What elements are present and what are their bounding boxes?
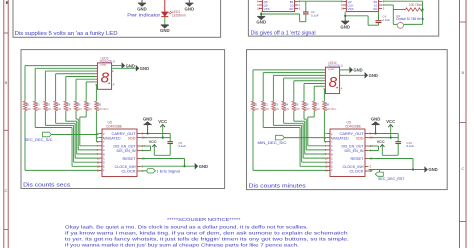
svg-text:RESET: RESET xyxy=(123,157,137,161)
svg-text:VCC: VCC xyxy=(386,119,395,124)
svg-text:220: 220 xyxy=(77,107,82,111)
svg-text:B: B xyxy=(461,70,464,75)
svg-text:220: 220 xyxy=(275,107,280,111)
svg-text:VQRN: VQRN xyxy=(100,65,107,67)
svg-text:0.1uF: 0.1uF xyxy=(311,14,319,18)
svg-text:VCC: VCC xyxy=(158,119,167,124)
svg-text:DIS_EN_IN: DIS_EN_IN xyxy=(117,149,136,153)
svg-text:R2: R2 xyxy=(36,103,40,107)
svg-text:0.1uF: 0.1uF xyxy=(406,144,414,148)
svg-text:1 Ertz Signal: 1 Ertz Signal xyxy=(156,170,180,174)
svg-text:R7: R7 xyxy=(315,103,319,107)
svg-text:220: 220 xyxy=(87,107,92,111)
svg-text:Dis supplies 5 volts an 'as a: Dis supplies 5 volts an 'as a funky LED xyxy=(15,31,118,37)
svg-text:If you wanna marke it den jus': If you wanna marke it den jus' buy sum a… xyxy=(65,243,299,248)
svg-text:R5: R5 xyxy=(295,103,299,107)
svg-text:R4: R4 xyxy=(285,103,289,107)
svg-text:220: 220 xyxy=(36,107,41,111)
svg-text:A: A xyxy=(331,148,333,152)
svg-text:220: 220 xyxy=(57,107,62,111)
svg-text:10: 10 xyxy=(341,7,345,11)
svg-text:D: D xyxy=(331,161,333,165)
svg-text:GND: GND xyxy=(143,116,153,121)
svg-text:A: A xyxy=(341,87,343,91)
svg-text:GND: GND xyxy=(185,6,195,11)
svg-text:GND: GND xyxy=(140,66,149,71)
svg-text:B: B xyxy=(5,80,8,85)
svg-text:C: C xyxy=(103,156,105,160)
svg-text:VDD: VDD xyxy=(128,136,136,140)
svg-text:CLOCK_INH: CLOCK_INH xyxy=(115,165,136,169)
svg-text:to yer. Its got no fancy whots: to yer. Its got no fancy whotsits, it ju… xyxy=(65,237,349,243)
svg-text:R1: R1 xyxy=(254,103,258,107)
svg-text:A: A xyxy=(103,148,105,152)
svg-text:R8: R8 xyxy=(98,103,102,107)
svg-text:VQRN: VQRN xyxy=(328,69,335,71)
svg-text:DIS_EN_IN: DIS_EN_IN xyxy=(345,149,364,153)
svg-text:SEC_DEC_S/C: SEC_DEC_S/C xyxy=(25,138,53,142)
svg-text:UNGATED: UNGATED xyxy=(332,136,349,140)
svg-text:CD4026BE: CD4026BE xyxy=(106,124,123,128)
svg-text:C: C xyxy=(461,166,464,171)
svg-text:2.1uF: 2.1uF xyxy=(382,18,390,22)
svg-text:Pwr Indicator: Pwr Indicator xyxy=(127,12,161,17)
svg-text:Dis gives off a 1 'ertz signal: Dis gives off a 1 'ertz signal xyxy=(251,30,316,36)
svg-text:*****SCOUSER NOTICE*****: *****SCOUSER NOTICE***** xyxy=(167,217,241,223)
svg-text:CD4026BE: CD4026BE xyxy=(345,124,362,128)
svg-text:R1: R1 xyxy=(26,103,30,107)
svg-text:C: C xyxy=(331,156,333,160)
svg-text:Okay laah. Be quiet a mo. Dis: Okay laah. Be quiet a mo. Dis clock is s… xyxy=(65,224,308,230)
svg-text:GND: GND xyxy=(369,73,378,78)
svg-text:Crystal 32.768 Hertz: Crystal 32.768 Hertz xyxy=(396,17,424,21)
svg-text:RESET: RESET xyxy=(351,157,365,161)
svg-text:GND: GND xyxy=(371,116,381,121)
svg-text:R6: R6 xyxy=(77,103,81,107)
svg-text:220 Ohm: 220 Ohm xyxy=(98,107,109,111)
svg-text:9O: 9O xyxy=(373,7,378,11)
svg-text:220: 220 xyxy=(264,107,269,111)
svg-text:R3: R3 xyxy=(47,103,51,107)
svg-text:B: B xyxy=(103,152,105,156)
svg-text:CLOCK: CLOCK xyxy=(350,170,365,174)
svg-text:GND: GND xyxy=(199,164,208,169)
svg-text:B: B xyxy=(331,152,333,156)
svg-text:D: D xyxy=(103,161,105,165)
svg-text:Dis counts secs: Dis counts secs xyxy=(23,182,71,188)
svg-text:GND: GND xyxy=(160,28,170,33)
svg-text:0.1uF: 0.1uF xyxy=(178,144,186,148)
svg-text:VCC: VCC xyxy=(149,140,157,144)
svg-text:9O: 9O xyxy=(289,7,294,11)
svg-text:220: 220 xyxy=(285,107,290,111)
svg-text:VDD: VDD xyxy=(356,136,364,140)
svg-text:220: 220 xyxy=(67,107,72,111)
svg-text:UNGATED: UNGATED xyxy=(104,136,121,140)
svg-text:E: E xyxy=(103,165,105,169)
svg-text:FND3-SC56-11: FND3-SC56-11 xyxy=(100,60,115,64)
svg-text:R4: R4 xyxy=(57,103,61,107)
svg-text:FND3-SC56-11: FND3-SC56-11 xyxy=(328,64,343,68)
svg-text:GND: GND xyxy=(340,25,350,30)
svg-text:MIN_DEC_S/C: MIN_DEC_S/C xyxy=(258,141,287,145)
svg-text:R8: R8 xyxy=(326,103,330,107)
svg-text:C: C xyxy=(5,188,8,193)
svg-text:VSS: VSS xyxy=(264,7,270,11)
svg-text:VCC: VCC xyxy=(377,140,385,144)
svg-text:LED5mm: LED5mm xyxy=(172,14,186,18)
svg-text:E: E xyxy=(331,165,333,169)
svg-text:220: 220 xyxy=(26,107,31,111)
svg-text:220: 220 xyxy=(305,107,310,111)
svg-text:220: 220 xyxy=(315,107,320,111)
svg-text:GND: GND xyxy=(353,68,362,73)
svg-text:CLOCK: CLOCK xyxy=(122,170,137,174)
svg-text:220: 220 xyxy=(47,107,52,111)
svg-text:R6: R6 xyxy=(305,103,309,107)
svg-text:VSS: VSS xyxy=(348,7,354,11)
svg-text:DIS_EN_OUT: DIS_EN_OUT xyxy=(114,145,137,149)
svg-text:If ya know warra I mean, kinda: If ya know warra I mean, kinda ting. If … xyxy=(65,231,348,237)
svg-text:GND: GND xyxy=(137,6,147,11)
svg-text:R3: R3 xyxy=(275,103,279,107)
svg-text:8: 8 xyxy=(101,70,110,87)
svg-text:8: 8 xyxy=(329,74,338,91)
svg-text:SEC_DEC_RST: SEC_DEC_RST xyxy=(378,177,405,181)
svg-text:GND: GND xyxy=(428,167,437,172)
svg-text:R7: R7 xyxy=(87,103,91,107)
svg-text:CLOCK_INH: CLOCK_INH xyxy=(343,165,364,169)
svg-text:DIS_EN_OUT: DIS_EN_OUT xyxy=(342,145,365,149)
svg-text:GND: GND xyxy=(256,20,266,25)
svg-text:R5: R5 xyxy=(67,103,71,107)
svg-text:10: 10 xyxy=(257,7,261,11)
svg-text:100 Ohm: 100 Ohm xyxy=(409,3,422,7)
svg-text:A: A xyxy=(113,82,115,86)
svg-text:220: 220 xyxy=(254,107,259,111)
svg-text:220 Ohm: 220 Ohm xyxy=(326,107,337,111)
svg-text:GND: GND xyxy=(126,63,135,68)
svg-text:R2: R2 xyxy=(264,103,268,107)
svg-text:220: 220 xyxy=(295,107,300,111)
svg-text:Dis counts minutes: Dis counts minutes xyxy=(249,183,307,189)
